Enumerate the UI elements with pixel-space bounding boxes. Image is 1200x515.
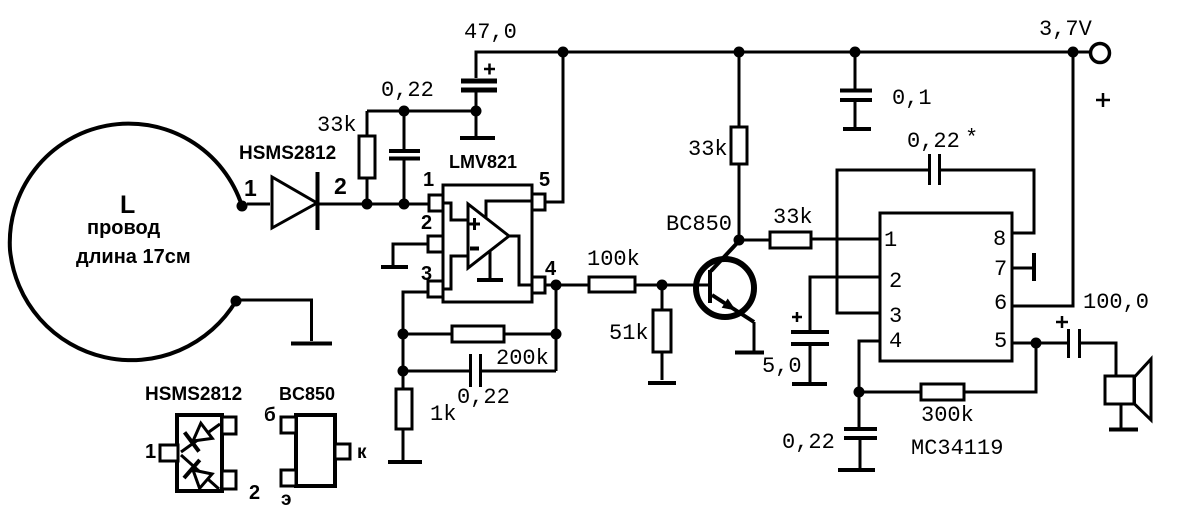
svg-text:MC34119: MC34119 [911, 436, 1003, 461]
svg-text:4: 4 [889, 329, 902, 354]
svg-text:3,7V: 3,7V [1039, 17, 1093, 42]
svg-text:5: 5 [539, 169, 550, 191]
svg-text:0,22: 0,22 [457, 385, 510, 410]
svg-text:б: б [264, 405, 276, 426]
svg-text:0,22: 0,22 [381, 78, 434, 103]
svg-text:7: 7 [994, 257, 1007, 282]
svg-text:BC850: BC850 [666, 212, 732, 237]
svg-text:33k: 33k [688, 137, 728, 162]
svg-text:HSMS2812: HSMS2812 [145, 384, 242, 405]
svg-text:4: 4 [545, 258, 557, 280]
svg-text:3: 3 [889, 304, 902, 329]
svg-text:6: 6 [994, 291, 1007, 316]
svg-text:3: 3 [421, 263, 432, 285]
svg-text:300k: 300k [921, 403, 974, 428]
svg-text:L: L [120, 191, 135, 219]
svg-text:33k: 33k [317, 113, 357, 138]
svg-text:8: 8 [993, 227, 1006, 252]
svg-text:LMV821: LMV821 [449, 152, 517, 172]
svg-text:1: 1 [423, 169, 434, 191]
svg-text:200k: 200k [496, 346, 549, 371]
svg-text:длина 17см: длина 17см [76, 246, 191, 268]
svg-text:51k: 51k [609, 321, 649, 346]
svg-text:1: 1 [145, 441, 156, 463]
svg-text:100,0: 100,0 [1083, 290, 1149, 315]
svg-text:0,22: 0,22 [907, 129, 960, 154]
svg-text:2: 2 [421, 212, 432, 234]
svg-text:5,0: 5,0 [762, 354, 802, 379]
svg-text:провод: провод [87, 217, 160, 239]
svg-text:5: 5 [994, 329, 1007, 354]
svg-text:э: э [281, 489, 292, 510]
svg-text:2: 2 [334, 173, 347, 199]
svg-text:BC850: BC850 [279, 384, 335, 404]
svg-text:0,1: 0,1 [892, 86, 932, 111]
svg-text:1k: 1k [430, 402, 456, 427]
svg-text:к: к [357, 442, 367, 463]
svg-text:1: 1 [884, 228, 897, 253]
svg-text:2: 2 [249, 482, 260, 504]
svg-text:0,22: 0,22 [782, 430, 835, 455]
svg-text:HSMS2812: HSMS2812 [239, 143, 336, 164]
svg-text:33k: 33k [773, 205, 813, 230]
svg-text:100k: 100k [587, 247, 640, 272]
svg-text:*: * [965, 126, 978, 151]
svg-text:1: 1 [244, 175, 257, 201]
svg-text:47,0: 47,0 [464, 20, 517, 45]
svg-text:2: 2 [889, 269, 902, 294]
